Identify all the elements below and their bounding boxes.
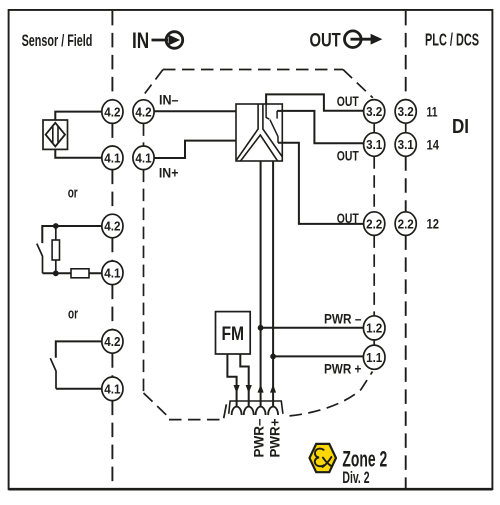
Ex epsilon glyph bbox=[315, 449, 324, 467]
proximity sensor B1 (NAMUR) body bbox=[43, 120, 68, 149]
svg-text:2.2: 2.2 bbox=[398, 216, 414, 231]
svg-text:Sensor / Field: Sensor / Field bbox=[22, 31, 93, 50]
terminal 3.1 (module OUT) bbox=[364, 133, 385, 157]
terminal 4.2 (module IN-) bbox=[133, 100, 154, 124]
isolator U1 isolation Y-symbol inner chevron bbox=[241, 135, 278, 161]
wire: sensor B1 to terminal 4.2 bbox=[55, 112, 102, 120]
Ex x glyph bbox=[323, 457, 333, 467]
svg-text:3.2: 3.2 bbox=[366, 104, 382, 119]
arrow down on FM lead 2 bbox=[246, 385, 252, 393]
terminal 3.2 (PLC) bbox=[395, 100, 416, 124]
module outline left side dashes bbox=[144, 123, 223, 419]
svg-text:14: 14 bbox=[427, 138, 440, 153]
module outline (dashed) top edge bbox=[163, 69, 343, 71]
svg-text:DI: DI bbox=[452, 116, 469, 138]
module outline upper-right diagonal bbox=[343, 70, 373, 98]
svg-text:PWR–: PWR– bbox=[252, 418, 267, 457]
svg-text:PWR –: PWR – bbox=[324, 312, 362, 327]
proximity sensor B1 inner bars bbox=[52, 126, 54, 142]
wire OUT to terminal 2.2 bbox=[278, 143, 364, 224]
svg-text:4.2: 4.2 bbox=[135, 104, 151, 119]
icon: IN direction symbol bbox=[152, 32, 183, 49]
isolator U1 output contact: fixed lead + tick bbox=[266, 104, 269, 119]
svg-text:OUT: OUT bbox=[337, 211, 359, 226]
wire: switch S3 bottom wire to terminal 4.1 bbox=[56, 388, 102, 390]
terminal 3.2 (module OUT) bbox=[364, 100, 385, 124]
proximity sensor B1 diamond symbol bbox=[46, 123, 65, 147]
resistor R1 (parallel) bbox=[52, 240, 59, 260]
svg-text:3.2: 3.2 bbox=[398, 104, 414, 119]
wire: switch S3 top wire to terminal 4.2 bbox=[56, 341, 102, 357]
svg-text:IN–: IN– bbox=[159, 93, 179, 108]
svg-text:IN+: IN+ bbox=[159, 166, 179, 181]
svg-text:4.1: 4.1 bbox=[104, 151, 120, 166]
terminal 4.2 (field, switch S3) bbox=[102, 330, 123, 354]
plug contact 3 bbox=[256, 407, 266, 415]
terminal 4.1 (module IN+) bbox=[133, 146, 154, 170]
svg-text:PWR +: PWR + bbox=[324, 361, 361, 376]
svg-text:11: 11 bbox=[427, 104, 438, 119]
svg-text:PWR+: PWR+ bbox=[267, 419, 282, 458]
svg-text:2.2: 2.2 bbox=[366, 216, 382, 231]
wire: solid link between terminals 3.2/3.1 (module side) bbox=[373, 123, 375, 133]
wire: resistor R1 leads bbox=[55, 226, 57, 240]
svg-text:1.2: 1.2 bbox=[366, 321, 382, 336]
module outline right side dashes bbox=[290, 156, 375, 416]
wire PWR+ : to terminal 1.1 bbox=[273, 355, 364, 357]
node: junction top of resistor R1 bbox=[53, 223, 59, 229]
svg-text:IN: IN bbox=[132, 28, 149, 53]
svg-text:or: or bbox=[68, 186, 78, 202]
module outline dash left of plug connector bbox=[224, 404, 227, 418]
svg-text:1.1: 1.1 bbox=[366, 350, 382, 365]
svg-text:OUT: OUT bbox=[337, 94, 359, 109]
terminal 1.1 (module PWR+) bbox=[363, 345, 385, 369]
wire: isolator PWR+ rail down to plug bbox=[272, 161, 274, 407]
terminal 4.2 (field, sensor B1) bbox=[102, 100, 123, 124]
switch S3 blade bbox=[50, 358, 56, 389]
PLC/DCS boundary dashed line bbox=[405, 11, 407, 488]
svg-text:4.2: 4.2 bbox=[104, 334, 120, 349]
arrow up on PWR- rail bbox=[258, 384, 264, 392]
svg-text:FM: FM bbox=[222, 323, 245, 345]
terminal 4.1 (field, switch S3) bbox=[102, 377, 123, 401]
wire: solid link between PLC terminals 3.2/3.1 bbox=[405, 123, 407, 133]
plug contact 4 bbox=[268, 407, 278, 415]
isolator U1 output contact right stub bbox=[276, 111, 278, 119]
svg-text:4.1: 4.1 bbox=[104, 382, 120, 397]
terminal 4.1 (field, switch S2) bbox=[102, 261, 123, 285]
terminal 3.1 (PLC) bbox=[395, 133, 416, 157]
wire: switch S2 top wire to terminal 4.2 bbox=[42, 226, 102, 243]
svg-text:PLC / DCS: PLC / DCS bbox=[425, 30, 479, 50]
wire: isolator PWR- rail down to plug bbox=[260, 161, 262, 407]
svg-text:4.1: 4.1 bbox=[135, 151, 151, 166]
wire OUT to terminal 3.2 bbox=[266, 94, 363, 110]
wire IN+ : terminal 4.1 to isolator input bbox=[154, 141, 236, 158]
arrow up on PWR+ rail bbox=[270, 384, 276, 392]
isolator U1 body bbox=[236, 104, 282, 161]
svg-text:4.2: 4.2 bbox=[104, 219, 120, 234]
switch S2 blade bbox=[37, 244, 43, 274]
svg-text:OUT: OUT bbox=[337, 148, 359, 163]
svg-text:4.2: 4.2 bbox=[104, 104, 120, 119]
svg-text:3.1: 3.1 bbox=[398, 137, 414, 152]
terminal 2.2 (module OUT) bbox=[364, 212, 385, 236]
module outline upper-left diagonal bbox=[145, 70, 163, 94]
terminal 4.2 (field, switch S2) bbox=[102, 214, 123, 238]
FM approval box bbox=[216, 312, 251, 354]
terminal 1.2 (module PWR-) bbox=[363, 316, 385, 340]
plug contact 1 bbox=[232, 407, 242, 415]
svg-text:12: 12 bbox=[427, 217, 440, 232]
svg-text:3.1: 3.1 bbox=[366, 137, 382, 152]
wire OUT to terminal 3.1 bbox=[277, 111, 363, 143]
wire PWR- : to terminal 1.2 bbox=[261, 327, 364, 329]
wire: switch S2 bottom wire to terminal 4.1 bbox=[43, 272, 102, 274]
icon: OUT direction symbol bbox=[345, 31, 383, 48]
plug connector bracket bbox=[229, 401, 283, 414]
node: junction PWR+ bbox=[270, 354, 276, 360]
terminal 2.2 (PLC) bbox=[395, 212, 416, 236]
wire: FM lead 2 bbox=[240, 354, 248, 407]
isolator U1 isolation Y-symbol left line bbox=[237, 104, 259, 160]
isolator U1 isolation Y-symbol right line bbox=[263, 104, 282, 156]
sensor/field boundary dashed line bbox=[111, 11, 113, 488]
arrow down on FM lead 1 bbox=[234, 385, 240, 393]
Ex hazardous-area hexagon bbox=[310, 444, 337, 472]
isolator U1 output contact blade bbox=[270, 120, 278, 143]
node: junction bottom of resistor R1 bbox=[53, 270, 59, 276]
node: junction PWR- bbox=[258, 325, 264, 331]
resistor R2 (series) bbox=[71, 269, 89, 278]
svg-text:or: or bbox=[68, 307, 78, 323]
wire IN- : terminal 4.2 to isolator input bbox=[154, 110, 236, 112]
wire: solid link between terminals 1.2/1.1 bbox=[373, 340, 375, 345]
plug contact 2 bbox=[244, 407, 254, 415]
wire: FM lead 1 bbox=[227, 354, 236, 407]
terminal 4.1 (field, sensor B1) bbox=[102, 146, 123, 170]
svg-text:Div. 2: Div. 2 bbox=[342, 468, 369, 487]
svg-text:4.1: 4.1 bbox=[104, 266, 120, 281]
wire: sensor B1 to terminal 4.1 bbox=[55, 149, 102, 157]
svg-text:OUT: OUT bbox=[310, 29, 341, 51]
